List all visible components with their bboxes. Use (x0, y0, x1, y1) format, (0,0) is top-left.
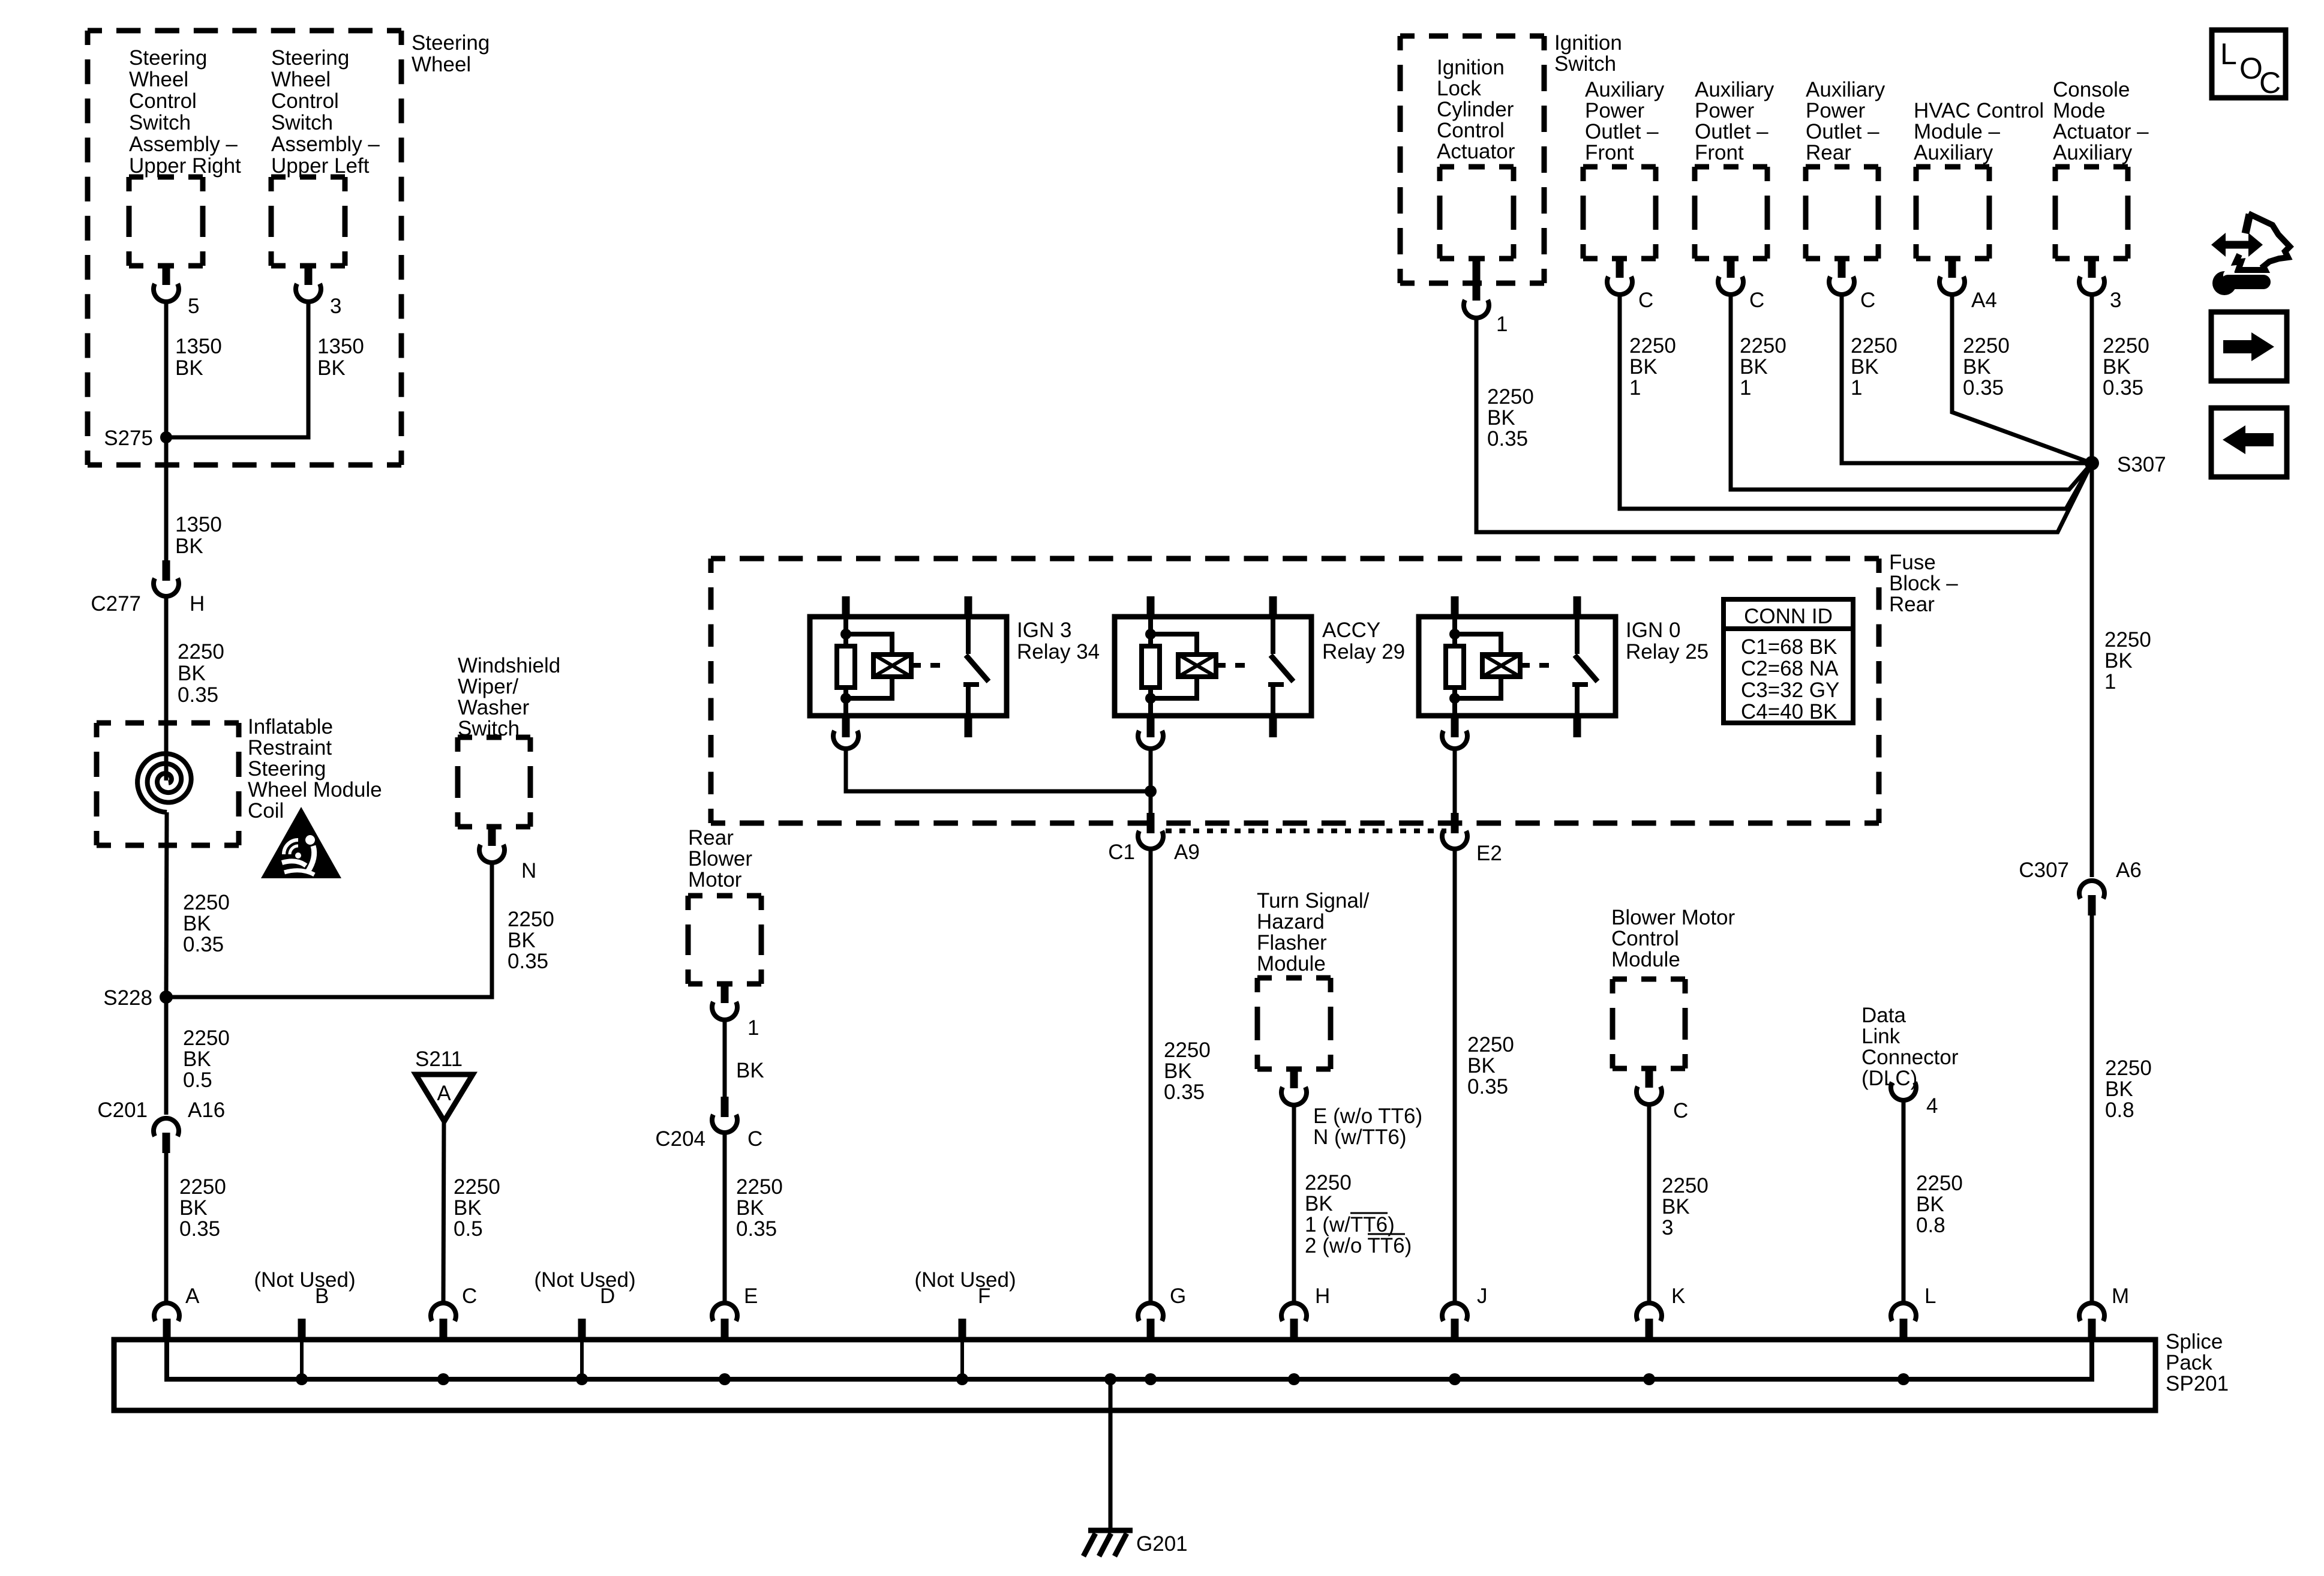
svg-text:ACCY: ACCY (1322, 619, 1380, 642)
wire 2250 BK 1 from aux rear to S307 (1842, 293, 2092, 463)
svg-text:4: 4 (1926, 1094, 1938, 1118)
svg-text:0.5: 0.5 (454, 1217, 483, 1241)
svg-text:0.35: 0.35 (2103, 376, 2143, 400)
svg-text:2250: 2250 (183, 1026, 230, 1050)
svg-text:2250: 2250 (454, 1175, 500, 1199)
svg-text:Data: Data (1861, 1004, 1906, 1027)
LOC legend box (2212, 30, 2286, 100)
svg-text:BK: BK (183, 912, 211, 935)
svg-text:Fuse: Fuse (1889, 551, 1936, 574)
svg-text:C201: C201 (97, 1098, 148, 1122)
svg-text:Rear: Rear (1889, 593, 1935, 616)
wire 2250 BK from flasher module to terminal H (1294, 1104, 1412, 1302)
splice pack internal bus (167, 1341, 2092, 1379)
svg-text:1: 1 (747, 1016, 759, 1040)
steering wheel assembly outer dashed box (88, 31, 490, 465)
svg-text:1: 1 (1851, 376, 1862, 400)
svg-text:A9: A9 (1174, 840, 1200, 864)
terminal L (1891, 1284, 1936, 1385)
svg-text:L: L (1924, 1284, 1936, 1308)
svg-text:BK: BK (1467, 1054, 1496, 1077)
svg-text:2250: 2250 (1487, 385, 1534, 409)
terminal B (not used) (254, 1268, 355, 1385)
terminal C (431, 1284, 477, 1341)
svg-text:2250: 2250 (1916, 1172, 1963, 1195)
svg-text:2250: 2250 (736, 1175, 783, 1199)
connector below IGN 0 relay (1442, 731, 1467, 749)
blower motor control module box (1611, 906, 1736, 1068)
svg-text:BK: BK (175, 535, 203, 558)
svg-text:0.35: 0.35 (1487, 427, 1528, 451)
svg-text:BK: BK (183, 1047, 211, 1071)
svg-text:Wiper/: Wiper/ (458, 675, 518, 698)
svg-text:2250: 2250 (1467, 1033, 1514, 1056)
svg-text:N: N (521, 859, 536, 882)
svg-text:2250: 2250 (1963, 334, 2010, 358)
svg-text:2250: 2250 (508, 908, 554, 931)
terminal A (154, 1284, 200, 1341)
svg-text:2250: 2250 (1305, 1171, 1352, 1194)
wire 1350 BK from pin 3 to S275 (166, 301, 364, 437)
connector pin A4 of HVAC control module (1939, 259, 1997, 312)
svg-text:0.35: 0.35 (736, 1217, 777, 1241)
svg-text:Power: Power (1806, 99, 1866, 122)
connector below IGN 3 relay (833, 731, 858, 749)
wire 2250 BK 0.35 from console actuator to S307 (2092, 293, 2149, 463)
svg-text:C: C (1749, 289, 1764, 312)
svg-text:H: H (1315, 1284, 1330, 1308)
svg-text:Outlet –: Outlet – (1585, 120, 1659, 143)
svg-text:BK: BK (178, 662, 206, 685)
wire 2250 BK 0.35 from wiper switch to S228 (166, 861, 554, 997)
svg-text:C2=68 NA: C2=68 NA (1741, 657, 1839, 680)
connector pin C of aux outlet rear (1829, 259, 1875, 312)
svg-text:Wheel: Wheel (129, 68, 188, 91)
svg-text:A16: A16 (188, 1098, 225, 1122)
svg-text:1 (w/TT6): 1 (w/TT6) (1305, 1213, 1395, 1236)
svg-text:Relay 29: Relay 29 (1322, 640, 1405, 664)
wire 2250 BK 1 from aux front 1 to S307 (1620, 293, 2092, 509)
steering wheel control switch assembly - upper right box (129, 46, 241, 266)
steering wheel control switch assembly - upper left box (271, 46, 380, 266)
svg-text:(Not Used): (Not Used) (534, 1268, 635, 1292)
svg-text:Motor: Motor (688, 868, 742, 891)
svg-text:0.35: 0.35 (179, 1217, 220, 1241)
svg-text:C: C (2259, 66, 2281, 100)
svg-text:C4=40 BK: C4=40 BK (1741, 700, 1837, 724)
connector pin 1 of rear blower motor (712, 984, 759, 1040)
terminal E (712, 1284, 758, 1385)
svg-text:Windshield: Windshield (458, 654, 560, 677)
svg-text:Module –: Module – (1914, 120, 2001, 143)
svg-text:S275: S275 (104, 427, 153, 450)
svg-text:1: 1 (2104, 670, 2116, 694)
wire 1350 BK from pin 5 to S275 (166, 301, 222, 437)
turn signal/hazard flasher module box (1257, 889, 1370, 1069)
svg-text:Blower: Blower (688, 847, 752, 870)
svg-text:Upper Right: Upper Right (129, 154, 241, 178)
svg-text:Auxiliary: Auxiliary (1914, 141, 1993, 164)
wire 2250 BK 0.35 from C201 to splice pack terminal A (166, 1153, 226, 1302)
svg-text:Auxiliary: Auxiliary (1695, 78, 1774, 101)
svg-text:L: L (2220, 37, 2237, 71)
svg-text:1350: 1350 (175, 513, 222, 536)
svg-text:Ignition: Ignition (1554, 31, 1622, 55)
terminal C junction dot (437, 1373, 449, 1385)
svg-text:2250: 2250 (1740, 334, 1786, 358)
wire from IGN 0 relay to E2 connector (1453, 749, 1457, 813)
svg-text:BK: BK (1305, 1192, 1333, 1215)
terminal K (1637, 1284, 1685, 1385)
svg-text:3: 3 (2110, 289, 2121, 312)
svg-text:Switch: Switch (458, 717, 520, 740)
svg-text:BK: BK (1662, 1195, 1690, 1218)
svg-text:H: H (190, 592, 205, 616)
svg-text:Relay 34: Relay 34 (1017, 640, 1100, 664)
svg-text:Module: Module (1611, 948, 1680, 971)
svg-text:G: G (1170, 1284, 1186, 1308)
wire 2250 BK 1 from S307 to C307 (2092, 463, 2151, 877)
svg-text:Coil: Coil (248, 799, 284, 822)
wire BK from rear blower motor to C204 (725, 1019, 764, 1097)
connector C204 pin C (655, 1097, 762, 1151)
svg-text:Inflatable: Inflatable (248, 715, 333, 739)
svg-text:(Not Used): (Not Used) (254, 1268, 355, 1292)
svg-text:Block –: Block – (1889, 572, 1958, 595)
svg-text:Lock: Lock (1437, 77, 1481, 100)
svg-text:BK: BK (1916, 1193, 1944, 1216)
wire 2250 BK 1 from aux front 2 to S307 (1731, 293, 2092, 490)
svg-text:BK: BK (1851, 355, 1879, 379)
svg-text:0.35: 0.35 (1963, 376, 2004, 400)
wire 2250 BK 0.8 from C307 to terminal M (2092, 915, 2152, 1302)
connector pin C of blower motor control module (1637, 1068, 1688, 1122)
wire 2250 BK 0.5 from S228 to C201 (166, 997, 230, 1115)
svg-text:C: C (1638, 289, 1653, 312)
svg-text:2250: 2250 (1164, 1038, 1211, 1062)
connector pin 5 of upper-right switch (154, 266, 199, 318)
terminal D (not used) (534, 1268, 635, 1385)
svg-text:BK: BK (175, 356, 203, 380)
connector C1 pin A9 (1108, 813, 1200, 864)
svg-text:2250: 2250 (2104, 628, 2151, 652)
svg-text:2250: 2250 (178, 640, 224, 664)
svg-text:BK: BK (1963, 355, 1991, 379)
svg-text:S228: S228 (103, 986, 152, 1010)
svg-text:C: C (1860, 289, 1875, 312)
backward arrow legend box (2211, 408, 2287, 477)
svg-text:Assembly –: Assembly – (129, 133, 238, 156)
auxiliary power outlet - front (2) box (1695, 78, 1774, 259)
svg-text:Wheel: Wheel (412, 53, 471, 76)
svg-text:0.5: 0.5 (183, 1068, 212, 1092)
svg-text:5: 5 (188, 295, 199, 318)
svg-text:G201: G201 (1136, 1532, 1188, 1556)
svg-text:A4: A4 (1971, 289, 1997, 312)
svg-text:2250: 2250 (2103, 334, 2149, 358)
svg-text:Switch: Switch (1554, 52, 1616, 76)
svg-text:Actuator: Actuator (1437, 140, 1515, 163)
svg-text:Washer: Washer (458, 696, 530, 719)
svg-text:1: 1 (1629, 376, 1641, 400)
svg-text:Module: Module (1257, 952, 1326, 975)
inflatable restraint steering wheel module coil (dashed box, spiral) (97, 715, 382, 845)
svg-text:0.8: 0.8 (1916, 1214, 1945, 1237)
svg-text:BK: BK (736, 1196, 764, 1220)
svg-text:2250: 2250 (183, 891, 230, 914)
svg-text:BK: BK (1164, 1059, 1192, 1083)
connector C201 pin A16 (97, 1098, 225, 1153)
svg-text:Steering: Steering (129, 46, 207, 70)
svg-text:A: A (437, 1082, 451, 1105)
svg-text:Switch: Switch (271, 111, 333, 134)
auxiliary power outlet - front (1) box (1583, 78, 1665, 259)
svg-text:0.35: 0.35 (508, 950, 548, 973)
svg-text:C1=68 BK: C1=68 BK (1741, 635, 1837, 659)
wire 2250 BK 0.35 from HVAC module to S307 (1952, 293, 2092, 463)
svg-text:BK: BK (1740, 355, 1768, 379)
svg-text:A: A (185, 1284, 200, 1308)
terminal F (not used) (914, 1268, 1016, 1385)
svg-text:N (w/TT6): N (w/TT6) (1313, 1125, 1407, 1149)
wire 2250 BK 0.8 from DLC to terminal L (1903, 1100, 1963, 1302)
svg-text:Auxiliary: Auxiliary (1585, 78, 1665, 101)
fuse block - rear dashed box (711, 551, 1958, 823)
svg-text:Upper Left: Upper Left (271, 154, 370, 178)
svg-text:Cylinder: Cylinder (1437, 98, 1514, 121)
wire 2250 BK 0.35 from coil to S228 (166, 812, 230, 997)
svg-text:2250: 2250 (2105, 1056, 2152, 1080)
svg-text:Hazard: Hazard (1257, 910, 1325, 933)
CONN ID table (1724, 599, 1853, 724)
svg-text:3: 3 (330, 295, 341, 318)
svg-text:C: C (747, 1127, 762, 1151)
console mode actuator - auxiliary box (2053, 78, 2149, 259)
wire 2250 BK 0.35 from C277 to coil (166, 596, 224, 781)
connector pin 3 of upper-left switch (296, 266, 341, 318)
svg-text:0.35: 0.35 (1164, 1080, 1205, 1104)
wire from ACCY relay to C1 connector (1149, 749, 1153, 813)
connector below ACCY relay (1138, 731, 1163, 749)
terminal J (1442, 1284, 1488, 1385)
svg-text:Rear: Rear (1806, 141, 1851, 164)
vehicle/wrench icon (2211, 214, 2290, 295)
svg-text:SP201: SP201 (2166, 1372, 2229, 1395)
wire 2250 BK 0.35 from ignition lock to S307 (1476, 317, 2092, 532)
svg-text:Wheel: Wheel (271, 68, 331, 91)
connector pin E/N of flasher module (1281, 1069, 1422, 1149)
relay ACCY Relay 29 (1115, 596, 1405, 737)
airbag warning triangle symbol (261, 807, 341, 878)
wire 2250 BK 0.35 from C1/A9 to terminal G (1151, 849, 1211, 1302)
svg-text:Relay 25: Relay 25 (1626, 640, 1709, 664)
svg-text:E2: E2 (1476, 842, 1502, 865)
svg-text:C307: C307 (2019, 858, 2069, 882)
terminal G (1138, 1284, 1186, 1385)
splice S307 (2085, 453, 2166, 476)
svg-text:E: E (744, 1284, 758, 1308)
svg-text:M: M (2112, 1284, 2129, 1308)
svg-text:Control: Control (1611, 927, 1679, 950)
svg-text:A6: A6 (2116, 858, 2142, 882)
svg-text:C1: C1 (1108, 840, 1135, 864)
svg-text:BK: BK (2104, 649, 2133, 673)
connector C277 pin H (91, 560, 205, 616)
svg-text:Link: Link (1861, 1025, 1900, 1048)
svg-text:Splice: Splice (2166, 1330, 2223, 1353)
HVAC control module - auxiliary box (1914, 99, 2044, 259)
wire 2250 BK 0.35 from C204 to terminal E (725, 1133, 783, 1302)
svg-text:3: 3 (1662, 1216, 1673, 1239)
wire 2250 BK 0.5 from S211 to terminal C (443, 1121, 500, 1302)
svg-text:BK: BK (2103, 355, 2131, 379)
connector pin 3 of console mode actuator (2079, 259, 2121, 312)
svg-text:C: C (462, 1284, 477, 1308)
connector pin C of aux outlet front 1 (1607, 259, 1653, 312)
wire from IGN 3 relay to junction on ACCY wire (846, 749, 1151, 791)
ground wire from splice pack to G201 (1104, 1373, 1116, 1530)
connector pin N of wiper switch (479, 827, 536, 882)
svg-text:0.35: 0.35 (1467, 1075, 1508, 1098)
svg-text:Flasher: Flasher (1257, 931, 1327, 954)
svg-text:Front: Front (1695, 141, 1744, 164)
svg-text:BK: BK (508, 929, 536, 952)
svg-text:2250: 2250 (1662, 1174, 1709, 1197)
svg-text:0.35: 0.35 (183, 933, 224, 956)
wire 1350 BK from S275 to C277 (166, 437, 222, 560)
relay IGN 0 Relay 25 (1419, 596, 1709, 737)
svg-text:HVAC Control: HVAC Control (1914, 99, 2044, 122)
svg-text:Connector: Connector (1861, 1046, 1959, 1069)
svg-text:C3=32 GY: C3=32 GY (1741, 679, 1839, 702)
windshield wiper/washer switch box (458, 654, 560, 827)
svg-text:Front: Front (1585, 141, 1634, 164)
data link connector (DLC) (1861, 1004, 1959, 1118)
svg-text:Switch: Switch (129, 111, 191, 134)
rear blower motor box (688, 826, 761, 984)
svg-text:2250: 2250 (1629, 334, 1676, 358)
svg-text:Assembly –: Assembly – (271, 133, 380, 156)
svg-text:Pack: Pack (2166, 1351, 2212, 1374)
terminal M (2079, 1284, 2129, 1341)
connector pin 1 of ignition lock actuator (1464, 259, 1508, 336)
svg-text:Steering: Steering (412, 31, 490, 55)
svg-text:Outlet –: Outlet – (1695, 120, 1768, 143)
svg-text:Auxiliary: Auxiliary (2053, 141, 2133, 164)
svg-text:1350: 1350 (317, 335, 364, 358)
svg-text:Mode: Mode (2053, 99, 2106, 122)
terminal H (1281, 1284, 1330, 1385)
svg-text:1: 1 (1740, 376, 1751, 400)
svg-text:2250: 2250 (179, 1175, 226, 1199)
svg-text:Wheel Module: Wheel Module (248, 778, 382, 801)
svg-text:Control: Control (1437, 119, 1505, 142)
svg-text:Power: Power (1695, 99, 1755, 122)
svg-text:BK: BK (179, 1196, 208, 1220)
ground G201 (1083, 1530, 1188, 1556)
svg-text:1350: 1350 (175, 335, 222, 358)
svg-text:1: 1 (1496, 313, 1508, 336)
svg-text:Steering: Steering (248, 757, 326, 781)
ignition lock cylinder control actuator box (1437, 56, 1515, 259)
svg-text:Restraint: Restraint (248, 736, 332, 760)
svg-text:Turn Signal/: Turn Signal/ (1257, 889, 1370, 912)
svg-text:BK: BK (317, 356, 346, 380)
connector E2 (1442, 813, 1502, 865)
svg-text:Control: Control (271, 89, 339, 113)
svg-text:Outlet –: Outlet – (1806, 120, 1879, 143)
splice pack SP201 box (114, 1330, 2229, 1410)
svg-text:Actuator –: Actuator – (2053, 120, 2149, 143)
ignition switch outer dashed box (1400, 31, 1622, 283)
svg-text:BK: BK (2105, 1077, 2133, 1101)
svg-text:IGN 0: IGN 0 (1626, 619, 1680, 642)
wire 2250 BK 3 from blower control module to terminal K (1649, 1103, 1709, 1302)
svg-text:K: K (1671, 1284, 1685, 1308)
svg-text:C277: C277 (91, 592, 141, 616)
svg-text:Ignition: Ignition (1437, 56, 1505, 79)
splice S275 (104, 427, 172, 450)
svg-text:Console: Console (2053, 78, 2130, 101)
wire 2250 BK 0.35 from E2 to terminal J (1455, 849, 1514, 1302)
svg-text:(Not Used): (Not Used) (914, 1268, 1016, 1292)
svg-text:Power: Power (1585, 99, 1645, 122)
relay IGN 3 Relay 34 (810, 596, 1100, 737)
svg-text:Steering: Steering (271, 46, 349, 70)
svg-text:0.8: 0.8 (2105, 1098, 2134, 1122)
dotted connector boundary line C1-E2 (1166, 828, 1446, 833)
junction of IGN3/ACCY wires (1145, 785, 1157, 797)
svg-text:Auxiliary: Auxiliary (1806, 78, 1885, 101)
svg-text:2250: 2250 (1851, 334, 1897, 358)
svg-text:CONN ID: CONN ID (1744, 605, 1833, 628)
svg-text:E (w/o TT6): E (w/o TT6) (1313, 1104, 1422, 1128)
svg-text:BK: BK (454, 1196, 482, 1220)
svg-text:BK: BK (1487, 406, 1515, 430)
connector pin C of aux outlet front 2 (1718, 259, 1764, 312)
svg-text:BK: BK (736, 1059, 764, 1082)
svg-text:0.35: 0.35 (178, 683, 218, 707)
connector C307 pin A6 (2019, 858, 2141, 915)
svg-text:J: J (1477, 1284, 1488, 1308)
svg-text:2 (w/o TT6): 2 (w/o TT6) (1305, 1234, 1412, 1257)
svg-text:Control: Control (129, 89, 197, 113)
auxiliary power outlet - rear box (1806, 78, 1885, 259)
splice S211 (triangle A) (415, 1047, 473, 1121)
svg-text:IGN 3: IGN 3 (1017, 619, 1071, 642)
svg-text:S307: S307 (2117, 453, 2166, 476)
svg-text:Rear: Rear (688, 826, 734, 849)
svg-text:C: C (1673, 1099, 1688, 1122)
svg-text:S211: S211 (415, 1047, 463, 1071)
svg-text:BK: BK (1629, 355, 1658, 379)
svg-text:Blower Motor: Blower Motor (1611, 906, 1736, 929)
svg-text:C204: C204 (655, 1127, 705, 1151)
forward arrow legend box (2211, 312, 2287, 381)
splice S228 (103, 986, 173, 1010)
